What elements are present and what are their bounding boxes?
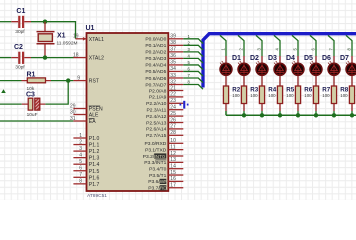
LED D7 xyxy=(328,55,349,86)
wire P0.3 to bus, net 4 xyxy=(183,54,203,64)
svg-text:P3.0/RXD: P3.0/RXD xyxy=(145,141,167,147)
svg-text:ALE: ALE xyxy=(89,113,99,119)
wire P0.1 to bus, net 2 xyxy=(183,40,203,50)
bus entry wire net 1 to D1 xyxy=(220,35,226,56)
pin 34 P0.5/AD5 xyxy=(145,66,183,75)
wire R1 to RST xyxy=(51,80,73,82)
svg-text:XTAL2: XTAL2 xyxy=(89,56,104,62)
bus entry wire net 4 to D4 xyxy=(274,35,280,56)
capacitor C1 xyxy=(11,8,31,35)
pin 6 P1.5 xyxy=(73,166,99,175)
svg-text:100: 100 xyxy=(322,93,330,98)
wire P0.6 to bus, net 7 xyxy=(183,73,203,83)
svg-text:39: 39 xyxy=(170,34,176,40)
svg-text:AT89C51: AT89C51 xyxy=(87,193,107,199)
pin 23 P2.2/A10 xyxy=(146,98,183,107)
crystal X1 xyxy=(37,22,78,58)
svg-text:P0.3/AD3: P0.3/AD3 xyxy=(145,56,166,62)
svg-text:P1.2: P1.2 xyxy=(89,149,100,155)
wire R1 left to edge xyxy=(0,80,22,82)
resistor R8 xyxy=(331,86,348,111)
bus P0 xyxy=(203,34,356,88)
svg-text:13: 13 xyxy=(170,157,176,163)
pin 19 XTAL1 xyxy=(73,34,104,43)
pin 8 P1.7 xyxy=(73,179,99,188)
bus entry wire net 8 to D8 xyxy=(346,35,352,56)
svg-text:P3.1/TXD: P3.1/TXD xyxy=(145,148,167,154)
svg-text:D6: D6 xyxy=(322,55,331,62)
pin 25 P2.4/A12 xyxy=(146,111,183,120)
svg-text:37: 37 xyxy=(170,47,176,53)
svg-text:12: 12 xyxy=(170,151,176,157)
wire C3 to RST junction xyxy=(45,81,68,105)
svg-text:P0.5/AD5: P0.5/AD5 xyxy=(145,69,166,75)
power terminal at left edge xyxy=(1,89,6,93)
resistor R4 xyxy=(259,86,276,111)
resistor R7 xyxy=(313,86,330,111)
svg-text:P2.6/A14: P2.6/A14 xyxy=(146,127,166,133)
svg-text:36: 36 xyxy=(170,53,176,59)
svg-text:22: 22 xyxy=(170,92,176,98)
pin 13 P3.3/INT1 xyxy=(144,157,183,166)
svg-text:4: 4 xyxy=(79,153,82,159)
wire P0.5 to bus, net 6 xyxy=(183,67,203,77)
resistor R2 xyxy=(223,86,240,111)
svg-text:19: 19 xyxy=(73,34,79,40)
wire P0.7 to bus, net 8 xyxy=(183,80,203,90)
svg-text:11: 11 xyxy=(170,145,175,151)
svg-text:30pf: 30pf xyxy=(15,29,25,35)
svg-text:16: 16 xyxy=(170,176,176,182)
pin 4 P1.3 xyxy=(73,153,99,162)
svg-text:R1: R1 xyxy=(27,71,36,78)
pin 18 XTAL2 xyxy=(73,52,104,61)
svg-text:P2.5/A13: P2.5/A13 xyxy=(146,120,166,126)
svg-text:P3.2/: P3.2/ xyxy=(143,154,155,160)
svg-text:P1.1: P1.1 xyxy=(89,143,100,149)
svg-text:P0.7/AD7: P0.7/AD7 xyxy=(145,82,166,88)
pin 26 P2.5/A13 xyxy=(146,117,183,126)
svg-text:D3: D3 xyxy=(268,55,277,62)
LED D6 xyxy=(310,55,331,86)
svg-text:34: 34 xyxy=(170,66,176,72)
svg-text:P1.3: P1.3 xyxy=(89,156,100,162)
pin 29 PSEN xyxy=(70,103,103,112)
svg-text:100: 100 xyxy=(286,93,294,98)
LED D2 xyxy=(238,55,259,86)
svg-text:26: 26 xyxy=(170,117,176,123)
resistor R5 xyxy=(277,86,294,111)
resistor R3 xyxy=(241,86,258,111)
pin 7 P1.6 xyxy=(73,172,99,181)
svg-text:P1.4: P1.4 xyxy=(89,162,100,168)
LED D1 xyxy=(220,55,241,86)
origin marker xyxy=(180,101,189,109)
svg-text:100: 100 xyxy=(268,93,276,98)
svg-text:P1.0: P1.0 xyxy=(89,136,100,142)
resistor R6 xyxy=(295,86,312,111)
svg-text:P3.5/T1: P3.5/T1 xyxy=(149,173,166,179)
pin 1 P1.0 xyxy=(73,133,99,142)
pin 36 P0.3/AD3 xyxy=(145,53,183,62)
resistor R9 xyxy=(349,86,354,111)
svg-text:100: 100 xyxy=(232,93,240,98)
svg-text:P3.4/T0: P3.4/T0 xyxy=(149,167,166,173)
svg-text:C2: C2 xyxy=(14,44,23,51)
svg-text:23: 23 xyxy=(170,98,176,104)
wire C2 to XTAL2 xyxy=(31,57,74,59)
pin 22 P2.1/A9 xyxy=(149,92,183,101)
svg-text:D5: D5 xyxy=(304,55,313,62)
svg-text:P1.6: P1.6 xyxy=(89,175,100,181)
svg-text:X1: X1 xyxy=(57,33,66,40)
pin 31 EA xyxy=(70,116,96,125)
svg-text:P2.7/A15: P2.7/A15 xyxy=(146,133,166,139)
bus entry wire net 6 to D6 xyxy=(310,35,316,56)
LED D3 xyxy=(256,55,277,86)
svg-text:C1: C1 xyxy=(16,8,25,15)
pin 16 P3.6/WR xyxy=(148,176,183,185)
pin 17 P3.7/RD xyxy=(148,183,183,192)
wire C1 to XTAL1 xyxy=(31,22,76,39)
svg-text:P0.2/AD2: P0.2/AD2 xyxy=(145,50,166,56)
svg-text:38: 38 xyxy=(170,40,176,46)
node junction RST/C3 xyxy=(66,78,70,82)
node junction C2/X1 xyxy=(43,55,47,59)
pin 21 P2.0/A8 xyxy=(149,85,183,94)
svg-text:21: 21 xyxy=(170,85,176,91)
pin 3 P1.2 xyxy=(73,146,99,155)
pin 27 P2.6/A14 xyxy=(146,124,183,133)
bus entry wire net 3 to D3 xyxy=(256,35,262,56)
svg-text:P2.2/A10: P2.2/A10 xyxy=(146,101,166,107)
svg-text:P3.6/: P3.6/ xyxy=(148,179,160,185)
svg-text:35: 35 xyxy=(170,60,176,66)
pin 32 P0.7/AD7 xyxy=(145,79,183,88)
pin 15 P3.5/T1 xyxy=(149,170,183,179)
svg-text:RST: RST xyxy=(89,79,99,85)
svg-text:RD: RD xyxy=(160,186,168,192)
svg-text:25: 25 xyxy=(170,111,176,117)
svg-text:17: 17 xyxy=(170,183,176,189)
svg-text:INT0: INT0 xyxy=(154,154,165,160)
svg-text:P0.0/AD0: P0.0/AD0 xyxy=(145,37,166,43)
node junction C1/X1 xyxy=(43,20,47,24)
wire ground rail xyxy=(226,111,356,118)
svg-text:33: 33 xyxy=(170,73,176,79)
svg-text:27: 27 xyxy=(170,124,176,130)
svg-text:P1.7: P1.7 xyxy=(89,182,100,188)
wire P0.2 to bus, net 3 xyxy=(183,47,203,57)
pin 35 P0.4/AD4 xyxy=(145,60,183,69)
bus entry wire net 5 to D5 xyxy=(292,35,298,56)
svg-text:14: 14 xyxy=(170,164,176,170)
svg-text:15: 15 xyxy=(170,170,176,176)
pin 28 P2.7/A15 xyxy=(146,130,183,139)
svg-text:P0.1/AD1: P0.1/AD1 xyxy=(145,43,166,49)
svg-text:U1: U1 xyxy=(86,25,95,32)
svg-text:18: 18 xyxy=(73,52,79,58)
pin 11 P3.1/TXD xyxy=(145,145,183,154)
svg-text:11.0592M: 11.0592M xyxy=(57,41,78,47)
svg-text:P0.6/AD6: P0.6/AD6 xyxy=(145,76,166,82)
bus entry wire net 7 to D7 xyxy=(328,35,334,56)
svg-text:5: 5 xyxy=(79,159,82,165)
pin 30 ALE xyxy=(70,109,99,118)
pin 39 P0.0/AD0 xyxy=(145,34,183,43)
pin 37 P0.2/AD2 xyxy=(145,47,183,56)
wire C3 left to edge xyxy=(0,103,22,105)
svg-text:P1.5: P1.5 xyxy=(89,169,100,175)
capacitor C2 xyxy=(11,44,31,71)
wire P0.4 to bus, net 5 xyxy=(183,60,203,70)
svg-text:7: 7 xyxy=(79,172,82,178)
svg-text:100: 100 xyxy=(340,93,348,98)
pin 38 P0.1/AD1 xyxy=(145,40,183,49)
svg-text:31: 31 xyxy=(70,116,76,122)
pin 24 P2.3/A11 xyxy=(147,105,184,114)
svg-text:2: 2 xyxy=(79,139,82,145)
LED D8 xyxy=(346,56,356,86)
capacitor C3 (electrolytic) xyxy=(22,91,46,118)
svg-text:1: 1 xyxy=(79,133,82,139)
pin 5 P1.4 xyxy=(73,159,99,168)
svg-text:100: 100 xyxy=(304,93,312,98)
wire P0.0 to bus, net 1 xyxy=(183,34,203,44)
wire C2 left to edge xyxy=(0,57,11,59)
wire EA to left edge xyxy=(0,120,73,122)
svg-text:P0.4/AD4: P0.4/AD4 xyxy=(145,63,166,69)
svg-text:P3.3/INT1: P3.3/INT1 xyxy=(144,160,166,166)
svg-text:24: 24 xyxy=(170,105,176,111)
svg-text:C3: C3 xyxy=(26,91,35,98)
svg-text:P2.0/A8: P2.0/A8 xyxy=(149,88,167,94)
svg-text:100: 100 xyxy=(250,93,258,98)
svg-text:D1: D1 xyxy=(232,55,241,62)
svg-text:P2.3/A11: P2.3/A11 xyxy=(147,108,167,114)
svg-text:D4: D4 xyxy=(286,55,295,62)
svg-text:D7: D7 xyxy=(340,55,349,62)
pin 33 P0.6/AD6 xyxy=(145,73,183,82)
svg-text:6: 6 xyxy=(79,166,82,172)
svg-text:30: 30 xyxy=(70,109,76,115)
svg-text:P2.1/A9: P2.1/A9 xyxy=(149,95,167,101)
svg-text:P2.4/A12: P2.4/A12 xyxy=(146,114,166,120)
pin 10 P3.0/RXD xyxy=(145,138,184,147)
pin 9 RST xyxy=(73,75,99,84)
pin 14 P3.4/T0 xyxy=(149,164,183,173)
svg-text:3: 3 xyxy=(79,146,82,152)
svg-text:P3.7/: P3.7/ xyxy=(148,186,160,192)
svg-text:EA: EA xyxy=(89,119,96,125)
svg-text:9: 9 xyxy=(77,75,80,81)
svg-text:XTAL1: XTAL1 xyxy=(89,37,104,43)
resistor R1 xyxy=(22,71,52,92)
bus entry wire net 2 to D2 xyxy=(238,35,244,56)
svg-text:10uF: 10uF xyxy=(27,112,38,118)
svg-text:28: 28 xyxy=(170,130,176,136)
LED D5 xyxy=(292,55,313,86)
pin 2 P1.1 xyxy=(73,139,99,148)
svg-text:WR: WR xyxy=(160,179,169,185)
svg-text:30pf: 30pf xyxy=(15,65,25,71)
LED D4 xyxy=(274,55,295,86)
pin 12 P3.2/INT0 xyxy=(143,151,184,160)
svg-text:8: 8 xyxy=(79,179,82,185)
svg-text:D2: D2 xyxy=(250,55,259,62)
ic U1 AT89C51 body xyxy=(86,25,169,199)
wire C1 left to edge xyxy=(0,21,11,23)
svg-text:10: 10 xyxy=(170,138,176,144)
